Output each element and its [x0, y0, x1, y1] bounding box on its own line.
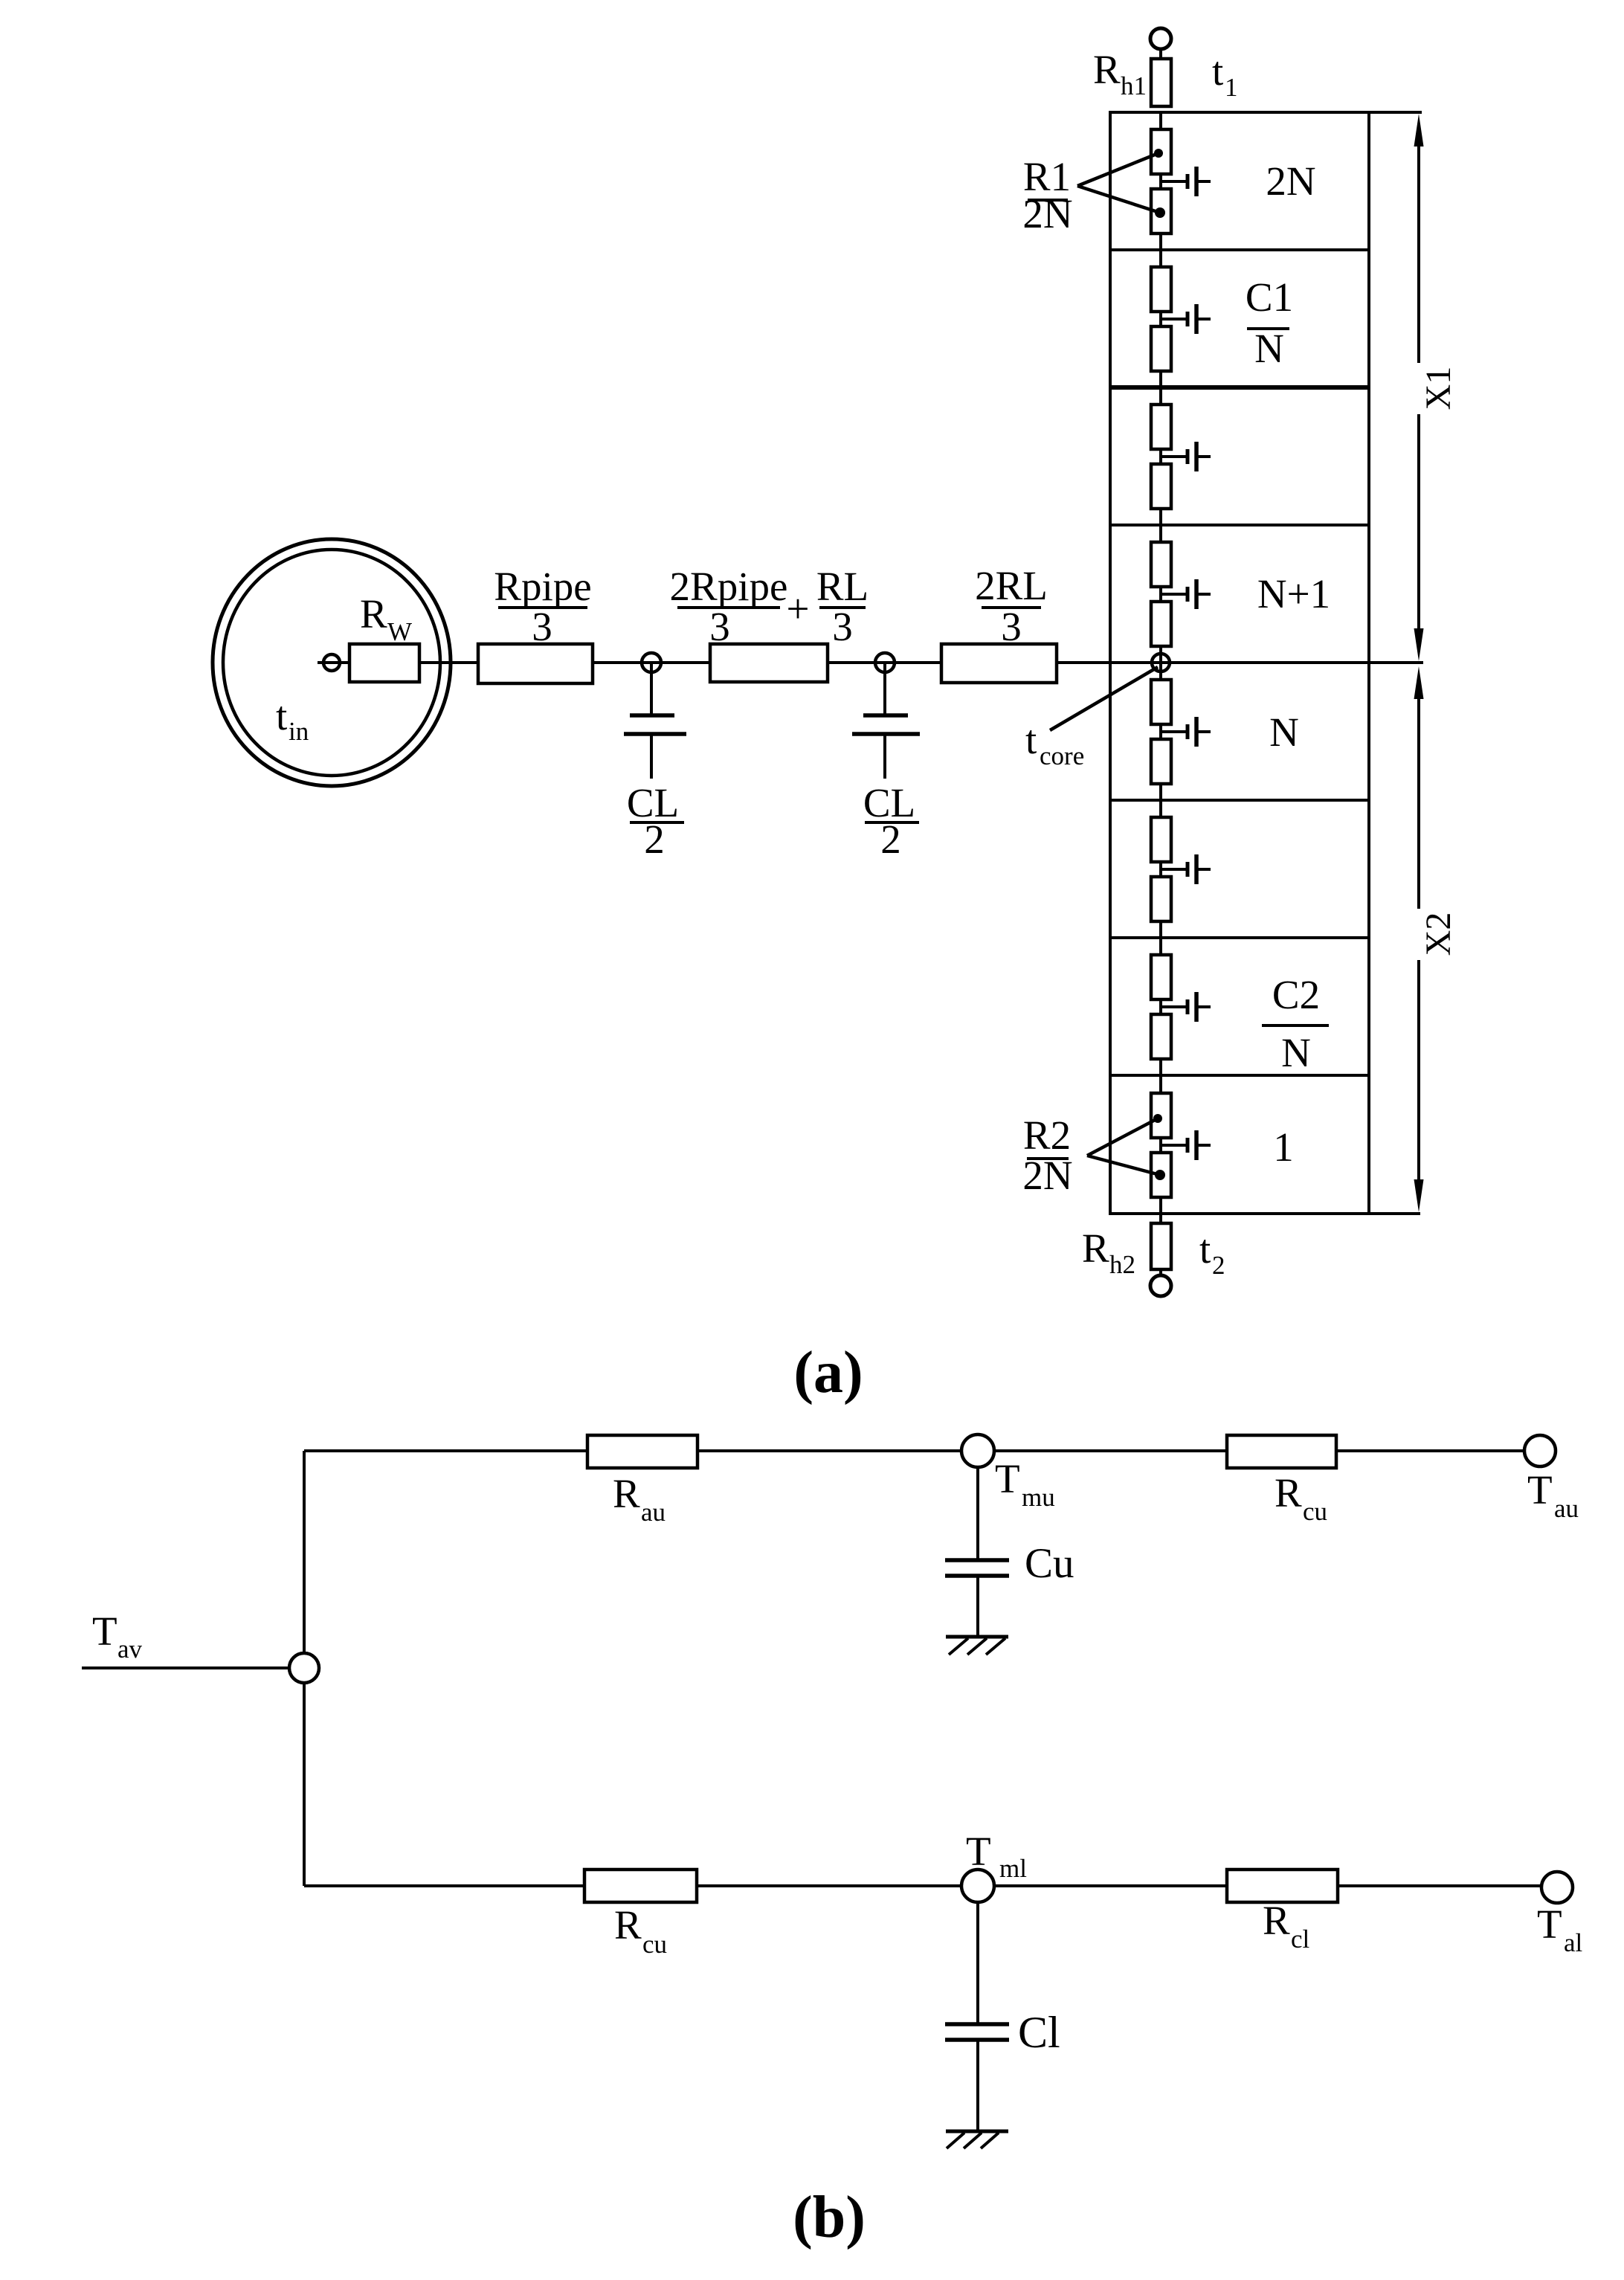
svg-text:RL: RL [816, 564, 869, 609]
wire to top terminal [1159, 49, 1162, 59]
svg-text:h2: h2 [1109, 1250, 1135, 1279]
cell 4 resistor upper [1151, 542, 1171, 587]
terminal T_au [1524, 1435, 1556, 1466]
svg-text:R: R [1093, 47, 1121, 92]
cell 8 capacitor to ground [1161, 1144, 1187, 1147]
svg-text:T: T [1527, 1467, 1553, 1513]
resistor R_h1 [1151, 59, 1171, 106]
cell 5 resistor lower [1151, 739, 1171, 784]
svg-text:R: R [1275, 1470, 1302, 1516]
resistor R_h2 [1151, 1223, 1171, 1269]
svg-text:1: 1 [1225, 73, 1238, 102]
svg-text:C2: C2 [1272, 972, 1320, 1017]
node T_av [289, 1653, 319, 1683]
resistor R_cl [1227, 1870, 1338, 1902]
node t_core [1152, 654, 1170, 672]
resistor R_cu upper [1227, 1435, 1336, 1468]
node T_ml [961, 1870, 994, 1902]
svg-text:t: t [1025, 717, 1037, 762]
svg-text:t: t [1212, 48, 1223, 94]
svg-text:(b): (b) [793, 2185, 866, 2250]
cell 8 resistor lower [1151, 1153, 1171, 1197]
cell 2 capacitor to ground [1161, 318, 1187, 321]
svg-text:R2: R2 [1023, 1112, 1071, 1158]
terminal t1 circle [1150, 28, 1171, 49]
cell boundary y=706 [1110, 524, 1369, 526]
ladder column wire [1159, 112, 1162, 1214]
svg-text:T: T [995, 1456, 1020, 1501]
svg-text:3: 3 [1001, 604, 1022, 649]
svg-text:X1: X1 [1419, 367, 1458, 410]
svg-text:R: R [360, 591, 387, 637]
svg-text:cl: cl [1291, 1925, 1310, 1954]
svg-text:N: N [1281, 1030, 1311, 1075]
svg-text:R: R [1263, 1898, 1290, 1943]
cell 1 resistor upper [1151, 129, 1171, 174]
node CL/2 no.1 [642, 653, 661, 672]
bottom dimension tick [1369, 1212, 1420, 1215]
svg-text:N: N [1254, 326, 1284, 371]
heat source circle t_in [213, 539, 451, 786]
svg-text:W: W [387, 617, 412, 646]
wire left vertical (b) [303, 1451, 306, 1886]
cell 5 capacitor to ground [1161, 730, 1187, 733]
svg-text:+: + [786, 586, 809, 631]
cell 7 resistor lower [1151, 1014, 1171, 1059]
capacitor CL/2 no.2 [883, 663, 886, 715]
resistor R_au [587, 1435, 697, 1468]
ground (Cl) [946, 2130, 1008, 2134]
cell 5 resistor upper [1151, 680, 1171, 724]
cell 6 resistor lower [1151, 877, 1171, 921]
terminal T_al [1541, 1872, 1573, 1903]
svg-text:3: 3 [832, 604, 853, 649]
svg-text:2N: 2N [1266, 158, 1315, 204]
svg-text:cu: cu [1303, 1497, 1327, 1526]
capacitor Cu [976, 1467, 979, 1559]
svg-text:Cu: Cu [1025, 1540, 1074, 1587]
resistor 2RL/3 [941, 644, 1057, 683]
wire main horizontal line y=891 [318, 661, 1423, 664]
terminal t2 circle [1150, 1275, 1171, 1296]
wire T_av lead [82, 1666, 304, 1669]
cell 4 capacitor to ground [1161, 593, 1187, 596]
resistor R_cu lower [584, 1870, 697, 1902]
svg-text:Cl: Cl [1018, 2008, 1060, 2057]
svg-text:C1: C1 [1246, 274, 1293, 320]
cell 3 resistor lower [1151, 464, 1171, 509]
cell 3 resistor upper [1151, 405, 1171, 449]
svg-text:X2: X2 [1419, 912, 1458, 956]
svg-text:T: T [1537, 1901, 1562, 1947]
cell 6 resistor upper [1151, 817, 1171, 862]
cell 1 resistor lower [1151, 189, 1171, 234]
svg-text:ml: ml [999, 1854, 1027, 1883]
cell 8 resistor upper [1151, 1093, 1171, 1138]
resistor Rpipe/3 [478, 644, 593, 683]
svg-text:t: t [276, 693, 287, 738]
svg-text:R: R [614, 1902, 642, 1948]
svg-text:N: N [1269, 709, 1299, 755]
svg-text:2Rpipe: 2Rpipe [670, 564, 788, 609]
cell 6 capacitor to ground [1161, 868, 1187, 871]
svg-text:1: 1 [1273, 1124, 1294, 1170]
cell 7 capacitor to ground [1161, 1005, 1187, 1008]
top dimension tick [1369, 111, 1422, 114]
heater block outline [1110, 112, 1369, 1214]
cell boundary y=1261 [1110, 936, 1369, 939]
svg-text:mu: mu [1022, 1483, 1055, 1512]
svg-text:in: in [289, 717, 309, 746]
svg-text:h1: h1 [1121, 71, 1147, 100]
svg-text:3: 3 [532, 604, 552, 649]
cell 2 resistor lower [1151, 326, 1171, 371]
wire to bottom terminal [1159, 1214, 1162, 1275]
svg-text:2: 2 [880, 817, 901, 862]
svg-text:2RL: 2RL [975, 563, 1048, 608]
svg-text:cu: cu [642, 1930, 667, 1959]
node terminal inside t_in [323, 654, 340, 671]
cell 2 resistor upper [1151, 267, 1171, 312]
cell 4 resistor lower [1151, 602, 1171, 646]
svg-text:T: T [966, 1829, 991, 1874]
cell boundary y=336 [1110, 248, 1369, 251]
svg-text:av: av [117, 1635, 143, 1664]
cell boundary y=1076 [1110, 799, 1369, 802]
ground (Cu) [946, 1635, 1008, 1639]
svg-text:T: T [92, 1608, 117, 1654]
cell 3 capacitor to ground [1161, 455, 1187, 458]
svg-text:2: 2 [644, 817, 665, 862]
svg-text:2N: 2N [1022, 191, 1072, 236]
svg-text:au: au [641, 1498, 666, 1527]
wire top branch (b) [304, 1449, 1540, 1452]
resistor 2Rpipe/3 + RL/3 [710, 644, 828, 682]
svg-text:3: 3 [709, 604, 730, 649]
capacitor CL/2 no.1 [650, 663, 653, 715]
capacitor Cl [976, 1902, 979, 2023]
svg-text:R: R [613, 1471, 640, 1516]
node T_mu [961, 1434, 994, 1467]
svg-text:core: core [1040, 741, 1084, 770]
svg-text:2: 2 [1212, 1251, 1225, 1280]
svg-text:N+1: N+1 [1257, 571, 1330, 616]
svg-text:(a): (a) [793, 1340, 863, 1405]
label t_core with leader [1050, 667, 1158, 730]
svg-text:R: R [1082, 1226, 1109, 1271]
node CL/2 no.2 [875, 653, 895, 672]
svg-text:t: t [1199, 1226, 1211, 1272]
svg-text:2N: 2N [1022, 1153, 1072, 1198]
cell boundary y=1446 [1110, 1074, 1369, 1077]
cell boundary y=521 [1110, 385, 1369, 390]
dimension line X2 [1417, 680, 1420, 909]
dimension line X1 [1417, 126, 1420, 363]
svg-text:au: au [1554, 1494, 1579, 1523]
resistor R_W [349, 644, 419, 682]
svg-text:al: al [1564, 1928, 1583, 1957]
cell 7 resistor upper [1151, 955, 1171, 999]
wire bottom branch (b) [304, 1884, 1557, 1887]
cell 1 capacitor to ground [1161, 180, 1187, 183]
svg-text:Rpipe: Rpipe [494, 564, 591, 609]
